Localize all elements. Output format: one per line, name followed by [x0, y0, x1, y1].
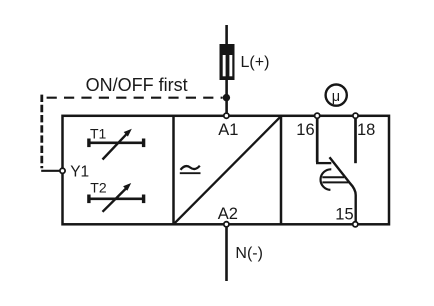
terminal Y1 [60, 168, 65, 173]
moving contact lever from 15 [330, 157, 356, 224]
terminal 18 [353, 113, 358, 118]
divider between setting section and converter section [172, 116, 175, 225]
converter diagonal line [175, 117, 280, 223]
delay linkage line upper [322, 176, 344, 178]
svg-text:A2: A2 [218, 205, 238, 223]
micro symbol circle [326, 85, 347, 106]
timer module outline [63, 116, 390, 225]
wire L(+) supply to fuse [225, 25, 228, 46]
fixed contact 18 wire [354, 116, 357, 164]
svg-text:Y1: Y1 [70, 164, 89, 181]
terminal 16 [315, 113, 320, 118]
potentiometer T1 [87, 129, 145, 160]
fuse F1 [220, 44, 235, 80]
dashed control line horizontal ON/OFF first [47, 97, 223, 99]
delay linkage line lower [322, 181, 348, 183]
divider between converter section and relay section [280, 116, 283, 225]
terminal A1 [224, 113, 229, 118]
svg-text:T2: T2 [90, 180, 107, 196]
svg-text:N(-): N(-) [235, 245, 263, 262]
svg-text:μ: μ [332, 89, 340, 105]
AC/DC symbol [180, 166, 201, 174]
wire A2 to N(-) [225, 224, 228, 281]
svg-text:T1: T1 [90, 126, 107, 142]
svg-text:16: 16 [296, 121, 314, 139]
time delay arc [321, 169, 332, 190]
relay contact: fixed contact 16 wire [316, 116, 356, 225]
terminal A2 [224, 222, 229, 227]
svg-text:ON/OFF first: ON/OFF first [86, 75, 188, 95]
svg-text:18: 18 [357, 121, 375, 139]
terminal 15 [353, 222, 358, 227]
junction node on A1 wire [223, 94, 230, 101]
wire dashed line to Y1 terminal [41, 170, 59, 172]
svg-text:L(+): L(+) [241, 54, 270, 71]
wire fuse to A1 [225, 78, 228, 116]
dashed control line vertical to Y1 [40, 95, 43, 169]
svg-text:15: 15 [335, 206, 353, 224]
fixed contact 16 foot [316, 162, 331, 164]
svg-text:A1: A1 [218, 121, 238, 139]
potentiometer T2 [87, 183, 145, 212]
